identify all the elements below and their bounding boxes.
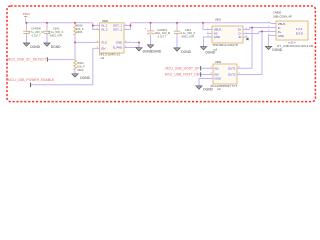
svg-text:DGND: DGND xyxy=(272,48,282,52)
op U901 ESD protection box xyxy=(207,17,260,51)
ground DGND for CAP900 xyxy=(23,43,40,49)
svg-text:DGND: DGND xyxy=(30,45,40,49)
svg-text:C901: C901 xyxy=(185,28,192,32)
svg-text:E_PAD: E_PAD xyxy=(113,46,122,50)
ground DGND for C900 xyxy=(44,43,61,49)
svg-text:GND: GND xyxy=(278,34,284,38)
junction rail at U901 xyxy=(202,22,204,24)
svg-text:0.1u_50V_K: 0.1u_50V_K xyxy=(49,30,64,34)
ground DGND for U901 xyxy=(200,47,215,55)
op U900 power switch box xyxy=(97,19,128,60)
junction D+ net xyxy=(261,31,263,33)
ground DGND for C901 xyxy=(174,48,192,54)
net label MCU_USB_OC_DETECT xyxy=(7,57,47,61)
svg-text:IN_2: IN_2 xyxy=(102,28,108,32)
wire OC_DETECT xyxy=(48,59,75,61)
ground DGND for R901 xyxy=(72,74,91,80)
svg-text:6.3x7.7: 6.3x7.7 xyxy=(158,35,167,39)
wire POWER_ENABLE to EN xyxy=(31,48,99,84)
svg-text:DGND: DGND xyxy=(203,87,213,91)
ground DGND for CAP901 xyxy=(147,45,161,54)
connector CN900 xyxy=(268,11,314,49)
wire U902 GND to ground xyxy=(199,79,213,86)
junction at U900 OUT_1 xyxy=(130,25,132,27)
junction on rail at C900 xyxy=(46,22,48,24)
svg-text:1 2 3: 1 2 3 xyxy=(296,27,303,31)
junction rail at C901 xyxy=(176,22,178,24)
wire VBUS rail xyxy=(131,22,271,24)
no-connect mark at U901 pin 4 xyxy=(246,38,248,40)
svg-text:0603_X7R: 0603_X7R xyxy=(182,35,195,39)
wire rail down to U901 VBUS xyxy=(203,23,207,30)
op U902 TVS clamp box xyxy=(208,60,243,91)
svg-text:null: null xyxy=(101,58,105,60)
wire CN900 GND to ground xyxy=(269,36,271,47)
svg-text:FLG: FLG xyxy=(102,40,107,44)
wire U901 D+ jog to connector D- net xyxy=(250,28,271,30)
wire FLG to U900 xyxy=(75,41,100,43)
net label MCU_USB_HOST_DM xyxy=(165,72,201,76)
power port P3V3 xyxy=(23,12,30,23)
svg-text:DGND: DGND xyxy=(51,45,61,49)
svg-text:OUT_2: OUT_2 xyxy=(113,28,122,32)
svg-text:MCU_USB_HOST_DP: MCU_USB_HOST_DP xyxy=(165,66,199,70)
svg-text:IN1: IN1 xyxy=(215,66,220,70)
sheet boundary dashed red frame xyxy=(7,6,315,102)
svg-text:CN900: CN900 xyxy=(273,11,282,15)
svg-text:GND: GND xyxy=(215,76,221,80)
svg-text:DGND: DGND xyxy=(152,50,162,54)
junction on rail at CAP900 xyxy=(26,22,28,24)
svg-text:EN: EN xyxy=(102,46,106,50)
svg-text:GND: GND xyxy=(116,40,122,44)
svg-text:OUT1: OUT1 xyxy=(228,66,236,70)
svg-text:DGND: DGND xyxy=(206,51,216,55)
junction at U900 GND pair xyxy=(138,41,140,43)
svg-text:TPD4S012+UDAYR: TPD4S012+UDAYR xyxy=(212,43,238,47)
wire OC node down xyxy=(74,42,76,60)
svg-text:RCLAMP0502T.TCT: RCLAMP0502T.TCT xyxy=(211,84,238,88)
junction D- net xyxy=(251,27,253,29)
ground DGND for CN900 xyxy=(265,46,282,52)
svg-text:GND: GND xyxy=(214,35,220,39)
svg-text:AP2171WPG-13: AP2171WPG-13 xyxy=(99,52,120,56)
svg-text:zx62-b: zx62-b xyxy=(288,41,296,45)
svg-text:R900: R900 xyxy=(76,23,83,27)
svg-text:CAP901: CAP901 xyxy=(157,28,168,32)
svg-text:ID: ID xyxy=(239,35,242,39)
net label MCU_USB_HOST_DP xyxy=(165,66,200,70)
wire DP to U902 IN1 xyxy=(201,67,207,69)
net label MCU_USB_POWER_ENABLE xyxy=(8,78,55,87)
svg-text:U900: U900 xyxy=(102,19,109,23)
ground DGND for U902 xyxy=(196,86,214,92)
wire U900 GND and E_PAD to ground xyxy=(124,42,139,47)
svg-text:MCU_USB_OC_DETECT: MCU_USB_OC_DETECT xyxy=(7,57,46,61)
svg-text:USB-CONN_4P: USB-CONN_4P xyxy=(273,15,292,19)
svg-text:C900: C900 xyxy=(53,27,60,31)
svg-text:0603_X7R: 0603_X7R xyxy=(50,34,63,38)
svg-text:0603: 0603 xyxy=(76,30,82,34)
junction rail at CAP901 xyxy=(150,22,152,24)
wire DM to U902 IN2 xyxy=(201,74,207,76)
svg-text:100u_10V_M: 100u_10V_M xyxy=(154,31,171,35)
capacitor CAP900 xyxy=(23,23,44,43)
wire D- net down to U902 OUT1 xyxy=(243,28,253,69)
capacitor CAP901 polarized xyxy=(145,23,171,45)
junction at U900 IN_1 xyxy=(92,25,94,27)
capacitor C901 xyxy=(174,23,196,48)
wire D+ net down to U902 OUT2 xyxy=(243,32,263,75)
wire U901 GND to ground xyxy=(204,37,207,47)
svg-text:0.1u_50V_K: 0.1u_50V_K xyxy=(181,31,196,35)
svg-text:10K_F: 10K_F xyxy=(77,65,85,69)
junction on rail at R900 xyxy=(74,22,76,24)
svg-text:null: null xyxy=(217,89,221,91)
svg-text:OUT2: OUT2 xyxy=(228,73,236,77)
wire U901 D- jog to connector D+ net xyxy=(259,32,271,34)
svg-text:MCU_USB_HOST_DM: MCU_USB_HOST_DM xyxy=(165,73,200,77)
svg-text:U901: U901 xyxy=(215,17,222,21)
wire U900 outputs join xyxy=(124,23,131,30)
svg-text:CAP900: CAP900 xyxy=(31,27,42,31)
svg-text:P3V3: P3V3 xyxy=(23,12,30,16)
svg-text:R901: R901 xyxy=(77,61,84,65)
svg-text:4.7u_25V_M: 4.7u_25V_M xyxy=(28,30,44,34)
resistor R901 xyxy=(74,60,86,74)
svg-text:MCU_USB_POWER_ENABLE: MCU_USB_POWER_ENABLE xyxy=(8,78,55,82)
capacitor C900 xyxy=(44,23,64,43)
wire P3V3 rail xyxy=(26,22,93,24)
ground DGND for U900 xyxy=(136,48,153,54)
svg-text:U902: U902 xyxy=(215,60,222,64)
svg-text:DGND: DGND xyxy=(80,76,90,80)
svg-text:E E E: E E E xyxy=(296,31,303,35)
svg-text:0603: 0603 xyxy=(77,68,83,72)
wire rail corner down to U900 inputs xyxy=(93,23,100,30)
junction at R900 bottom FLG node xyxy=(74,41,76,43)
svg-text:10K_F: 10K_F xyxy=(76,27,84,31)
resistor R900 xyxy=(74,23,84,43)
svg-text:DGND: DGND xyxy=(181,50,191,54)
svg-text:6.3x7.7: 6.3x7.7 xyxy=(32,34,41,38)
svg-text:RT_USB-MICRO-ND(3.0M: RT_USB-MICRO-ND(3.0M xyxy=(277,44,314,48)
